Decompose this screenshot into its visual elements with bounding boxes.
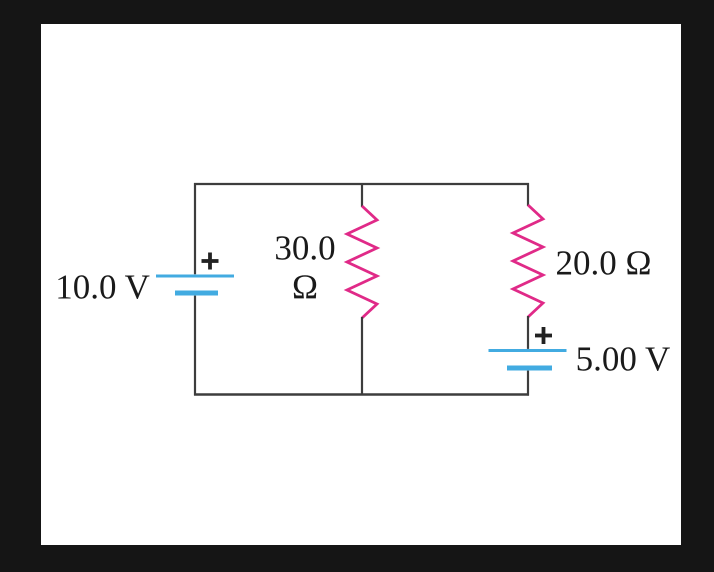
polarity plus sign of V2 (535, 327, 552, 344)
svg-text:10.0 V: 10.0 V (55, 268, 150, 307)
resistor 20.0 ohm (zigzag) (513, 205, 543, 317)
battery V2 5.00 V (plates) (489, 351, 567, 369)
label: 5.00 V source value (576, 339, 671, 378)
wire: left branch lower segment (194, 296, 196, 396)
wire: middle branch lower segment (361, 317, 363, 396)
wire: left branch upper segment (194, 183, 196, 274)
label: 10.0 V source value (55, 268, 150, 307)
label: 20.0 ohm value (555, 244, 651, 283)
svg-text:20.0 Ω: 20.0 Ω (555, 244, 651, 283)
wire: top rail (194, 183, 529, 185)
wire: right branch segment between resistor and battery (527, 316, 529, 349)
wire: bottom rail (194, 393, 529, 395)
svg-text:Ω: Ω (292, 268, 318, 307)
resistor 30.0 ohm (zigzag) (347, 206, 377, 318)
wire: middle branch upper segment (361, 183, 363, 207)
battery V1 10.0 V (plates) (156, 276, 234, 293)
wire: right branch upper segment (527, 183, 529, 206)
polarity plus sign of V1 (202, 253, 219, 270)
svg-text:30.0: 30.0 (274, 229, 335, 268)
label: 30.0 ohm value (two lines) (274, 229, 335, 307)
wire: right branch lower segment (527, 371, 529, 396)
svg-text:5.00 V: 5.00 V (576, 339, 671, 378)
